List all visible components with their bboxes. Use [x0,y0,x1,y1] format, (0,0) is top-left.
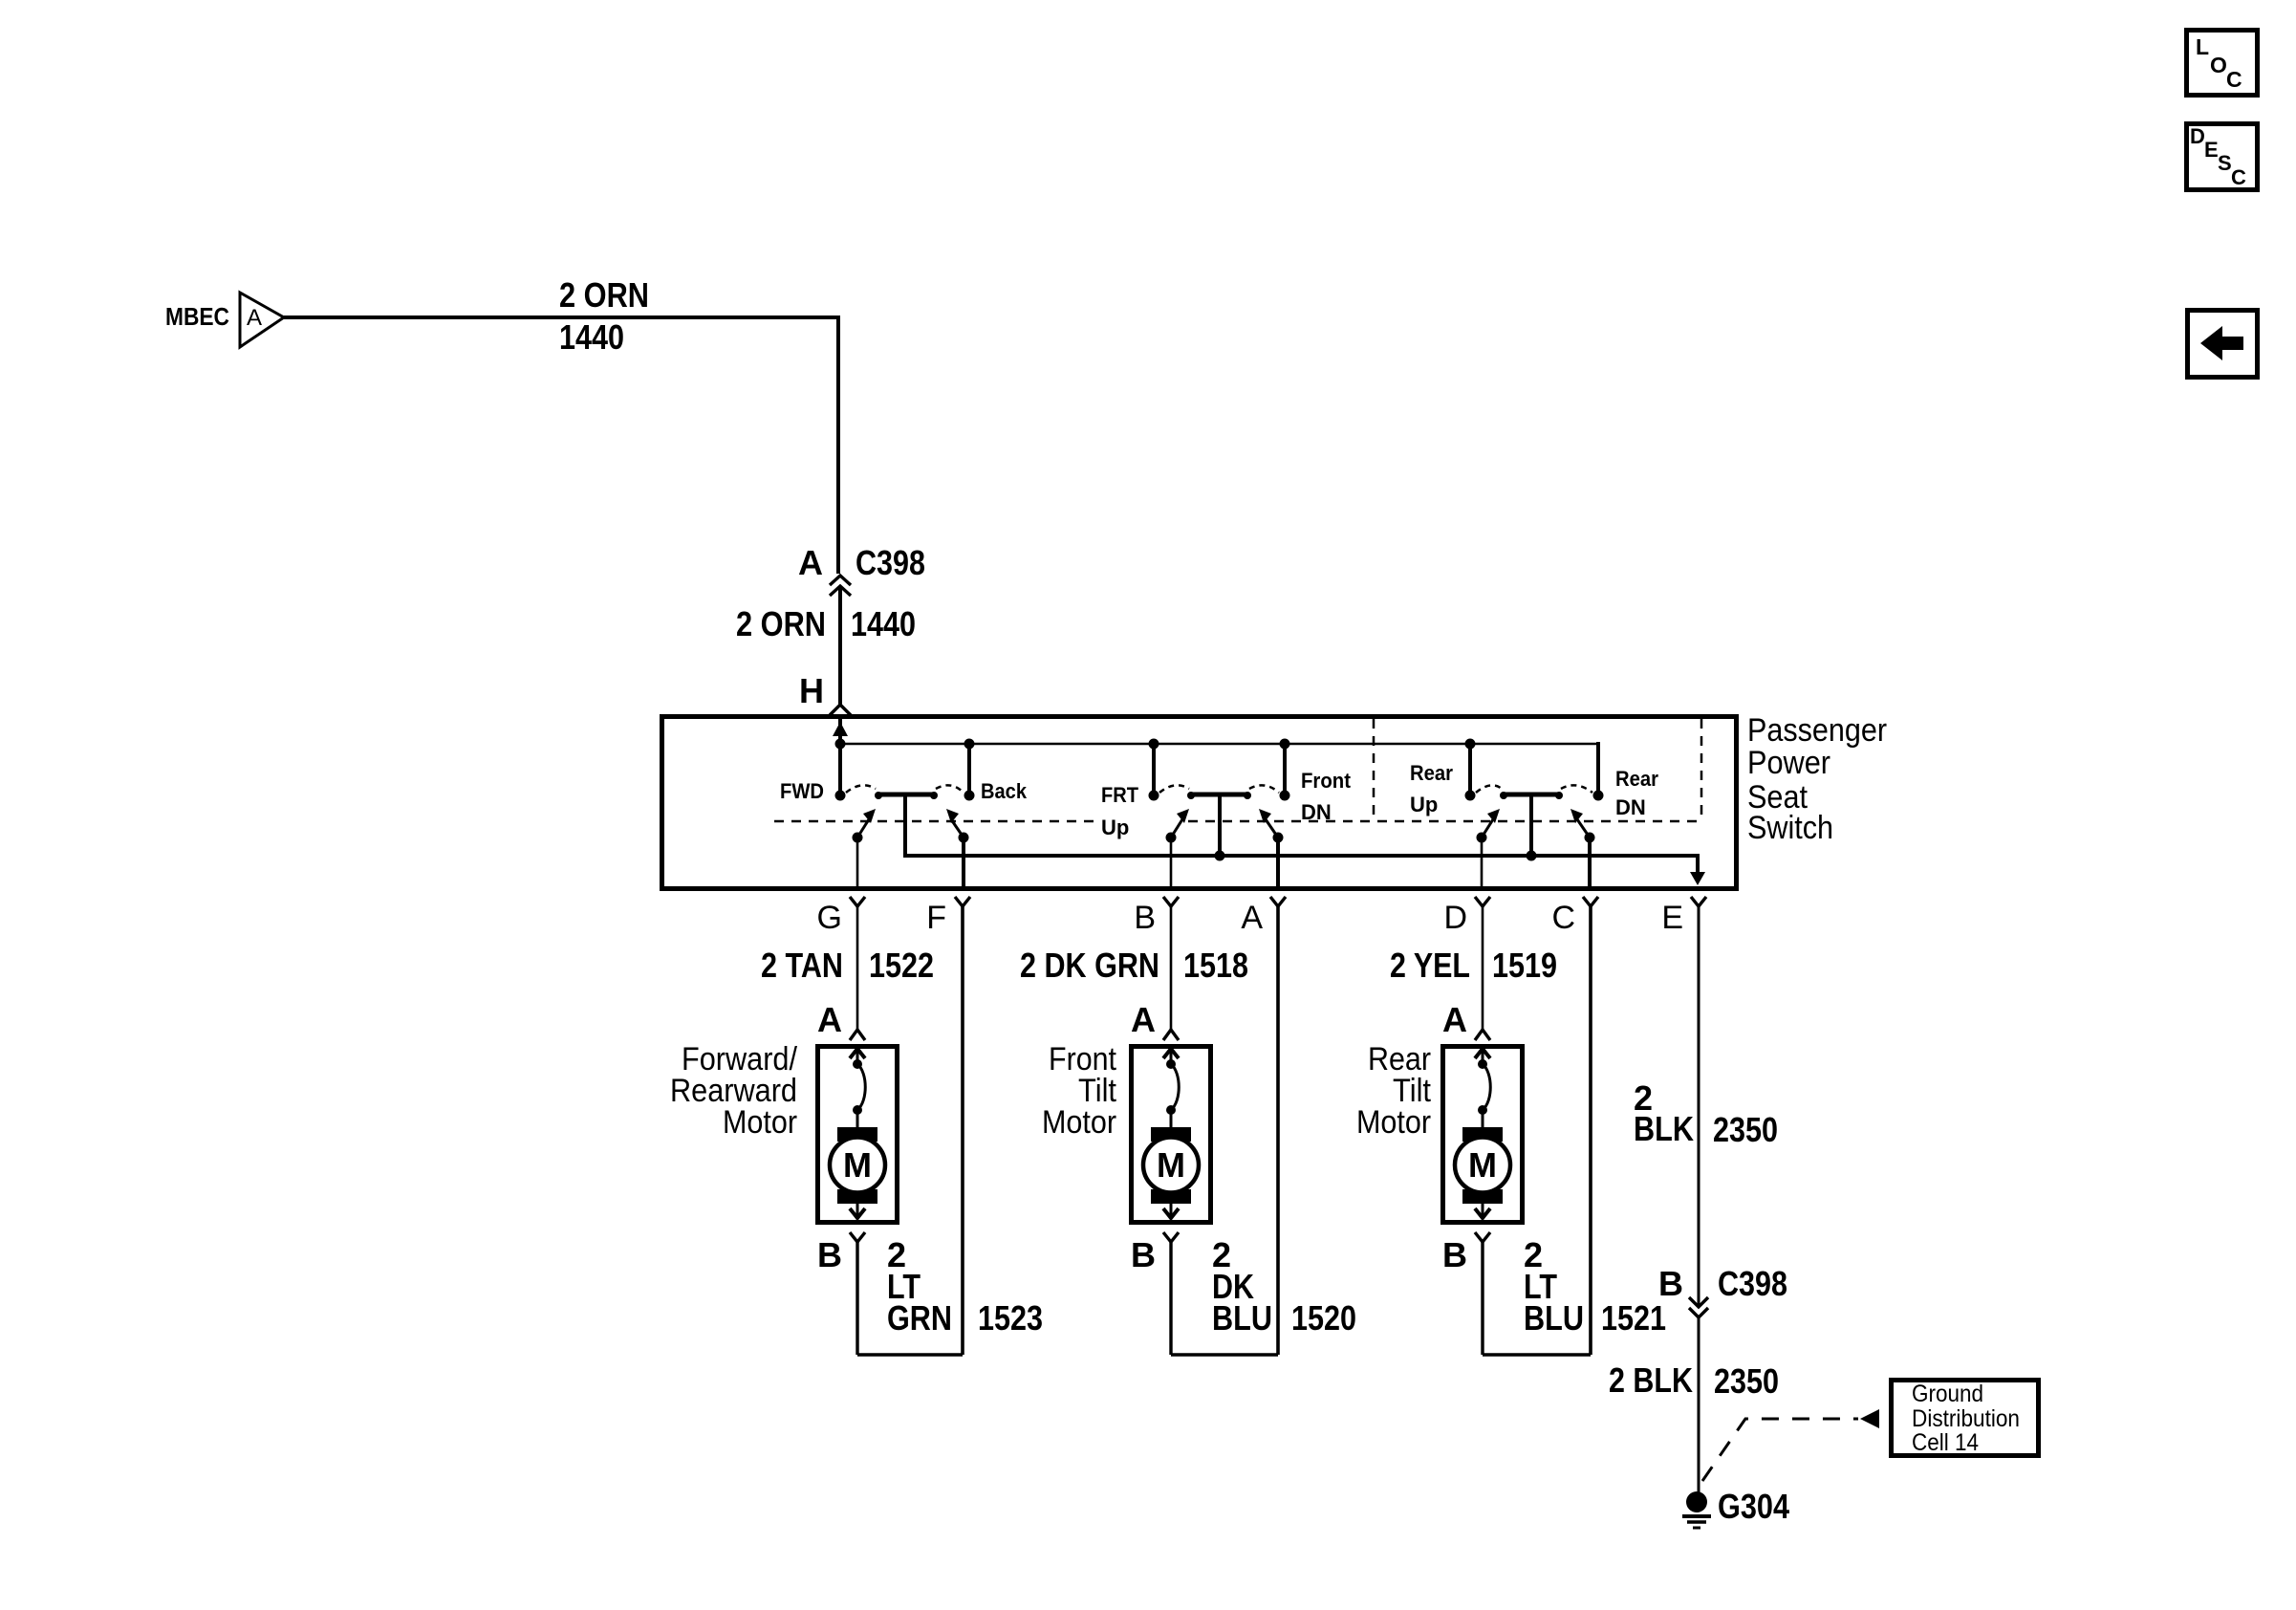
Passenger Power Seat Switch label [1747,712,1887,846]
svg-text:BLK: BLK [1634,1109,1694,1148]
MBEC source triangle pin A [240,293,284,347]
pin F chevron [955,897,970,906]
svg-text:Motor: Motor [723,1104,797,1141]
feed bus line inside switch [840,743,1598,746]
switch 2 left pole dot [1166,833,1177,843]
svg-text:Distribution: Distribution [1912,1405,2020,1432]
switch 1 FWD feed drop [838,744,842,792]
pin C chevron [1583,897,1598,906]
svg-text:1440: 1440 [851,604,916,643]
switch 3 pole D lead [1481,838,1484,889]
connector C398 chevrons [830,576,851,596]
svg-text:Rear: Rear [1615,767,1658,791]
junction dot tap 3 [1527,851,1537,861]
svg-text:Motor: Motor [1042,1104,1116,1141]
pin G chevron [850,897,865,906]
svg-text:DN: DN [1615,795,1646,819]
dashed boundary vertical right [1700,719,1703,820]
svg-text:H: H [799,671,824,710]
switch 3 right pole dot [1585,833,1595,843]
dashed switch-section boundary horizontal [774,820,1094,823]
svg-text:DN: DN [1301,800,1332,824]
label 2 DK BLU [1212,1235,1272,1338]
svg-text:C398: C398 [1718,1264,1787,1303]
svg-text:A: A [1131,1000,1156,1039]
svg-text:BLU: BLU [1524,1298,1584,1338]
Forward/Rearward Motor label [670,1041,797,1141]
connector C398 lower chevrons [1689,1297,1708,1317]
svg-text:D: D [2190,124,2205,148]
switch 2 pole A lead [1276,838,1280,889]
wire B to motor 2 [1170,906,1173,1029]
svg-text:FWD: FWD [780,779,824,803]
svg-text:M: M [1468,1145,1497,1185]
svg-text:C: C [1551,900,1575,936]
svg-text:A: A [1442,1000,1467,1039]
wire F down [961,906,964,1355]
svg-text:O: O [2210,53,2227,77]
svg-text:Back: Back [981,779,1028,803]
svg-text:D: D [1443,900,1467,936]
switch 1 right pole arrow [951,819,964,838]
svg-text:Ground: Ground [1912,1381,1983,1407]
svg-text:2 TAN: 2 TAN [761,946,843,985]
wire 2 ORN vertical drop [836,315,840,574]
switch 3 right pole arrow [1577,819,1590,838]
svg-text:Switch: Switch [1747,810,1833,846]
switch common return line [905,794,1698,875]
switch 2 Front DN feed drop [1283,744,1287,792]
wire G to motor 1 [856,906,859,1029]
svg-text:B: B [1658,1264,1683,1303]
svg-text:Cell 14: Cell 14 [1912,1429,1979,1456]
DESC legend box [2187,124,2258,190]
motor 2 wire B down [1169,1242,1172,1355]
pin H chevron [830,705,851,715]
svg-text:B: B [817,1235,842,1274]
junction dot tap 2 [1215,851,1225,861]
motor 1 wire B down [856,1242,858,1355]
svg-text:A: A [1241,900,1263,936]
svg-text:2 DK GRN: 2 DK GRN [1020,946,1159,985]
motor 3 loop wire to pin C [1483,1353,1591,1357]
junction dot feed to Front DN [1280,739,1290,750]
Ground Distribution Cell 14 box [1892,1381,2039,1457]
svg-text:A: A [817,1000,842,1039]
pin E chevron [1691,897,1706,906]
svg-text:A: A [247,305,262,331]
motor 3 pin B chevron [1475,1232,1490,1242]
svg-text:2 ORN: 2 ORN [559,275,649,315]
dashed boundary vertical mid [1373,719,1375,820]
svg-text:E: E [2204,138,2219,162]
switch 1 right pole dot [959,833,969,843]
switch 2 wiper tap [1218,794,1222,856]
motor 1 Forward/Rearward Motor [818,1047,898,1223]
motor 2 loop wire to pin A [1171,1353,1278,1357]
pin A chevron [1270,897,1286,906]
switch 2 FRT Up feed drop [1152,744,1156,792]
junction dot feed at H drop [835,739,846,750]
svg-text:M: M [1157,1145,1185,1185]
motor 1 pin A chevron [850,1030,865,1040]
wire feed entry with up arrow inside box [838,719,842,744]
switch 3 left pole dot [1477,833,1487,843]
motor 2 pin A chevron [1163,1030,1179,1040]
label 2 LT GRN [887,1235,952,1338]
back-arrow legend box [2188,311,2258,378]
motor 3 Rear Tilt Motor [1443,1047,1523,1223]
wire D to motor 3 [1482,906,1484,1029]
switch 2 dashed arc left [1159,785,1189,793]
svg-text:1518: 1518 [1183,946,1248,985]
Rear DN label [1615,767,1658,819]
switch 3 pole C lead [1588,838,1592,889]
svg-text:C: C [2231,165,2246,189]
common return arrow to pin E [1690,872,1705,885]
dashed reference line to Ground Distribution [1702,1419,1858,1481]
label 2 LT BLU [1524,1235,1584,1338]
switch 3 wiper tap [1529,794,1533,856]
svg-text:B: B [1134,900,1156,936]
svg-text:2 YEL: 2 YEL [1390,946,1470,985]
LOC legend box [2187,31,2258,96]
Front Tilt Motor label [1042,1041,1117,1141]
Rear Up label [1410,761,1453,816]
FRT Up label [1101,783,1139,839]
svg-text:1522: 1522 [869,946,934,985]
switch 2 pole B lead [1170,838,1173,889]
reference arrow [1860,1409,1879,1428]
svg-text:2 BLK: 2 BLK [1609,1360,1693,1400]
motor 2 Front Tilt Motor [1132,1047,1211,1223]
switch 1 FWD contact [835,791,846,801]
junction dot feed to Back [964,739,975,750]
svg-text:G304: G304 [1718,1487,1789,1526]
switch 3 left pole arrow [1482,819,1493,838]
svg-text:GRN: GRN [887,1298,952,1338]
wire 2 BLK to ground [1698,1317,1700,1493]
switch 2 FRT Up contact [1149,791,1159,801]
motor 1 loop wire to pin F [857,1353,963,1357]
switch 1 dashed arc left [846,785,876,793]
svg-text:BLU: BLU [1212,1298,1272,1338]
switch 3 Rear DN feed corner drop [1596,742,1600,792]
pin D chevron [1475,897,1490,906]
motor 3 pin A chevron [1475,1030,1490,1040]
svg-text:1523: 1523 [978,1298,1043,1338]
switch 2 right pole arrow [1266,819,1278,838]
switch 2 Front DN contact [1280,791,1290,801]
switch 3 Rear Up contact [1465,791,1476,801]
svg-text:A: A [798,543,823,582]
svg-text:2350: 2350 [1714,1361,1779,1401]
svg-text:Power: Power [1747,745,1830,781]
svg-text:Rear: Rear [1410,761,1453,785]
switch 3 Rear DN contact [1593,791,1604,801]
motor 1 pin B chevron [850,1232,865,1242]
switch 1 dashed arc right [936,785,964,793]
wire 2 ORN 1440 below C398 [838,586,842,705]
switch 2 right pole dot [1273,833,1284,843]
motor 3 wire B down [1481,1242,1484,1355]
switch 3 Rear Up feed drop [1468,744,1472,792]
svg-text:C: C [2226,67,2242,92]
svg-text:Front: Front [1301,769,1352,793]
svg-text:FRT: FRT [1101,783,1139,807]
svg-text:1440: 1440 [559,317,624,357]
svg-text:2350: 2350 [1713,1110,1778,1149]
switch 1 Back contact [964,791,975,801]
svg-text:G: G [817,900,842,936]
switch 3 dashed arc right [1561,785,1592,793]
svg-text:1520: 1520 [1291,1298,1356,1338]
svg-text:1521: 1521 [1601,1298,1666,1338]
svg-text:MBEC: MBEC [165,302,229,331]
switch 2 wiper bar [1191,793,1247,797]
svg-text:Passenger: Passenger [1747,712,1887,749]
svg-text:E: E [1661,900,1683,936]
motor 2 pin B chevron [1163,1232,1179,1242]
svg-text:L: L [2196,34,2209,59]
switch 2 left pole arrow [1171,819,1182,838]
junction dot feed to FRT Up [1149,739,1159,750]
switch 1 pole G lead [856,838,859,889]
svg-text:B: B [1442,1235,1467,1274]
ground G304 [1682,1491,1711,1528]
wire E down to C398 [1698,906,1700,1306]
label 2 BLK (upper) [1634,1078,1694,1148]
svg-text:M: M [843,1145,872,1185]
svg-text:Motor: Motor [1356,1104,1431,1141]
svg-text:2 ORN: 2 ORN [736,604,826,643]
Front DN label [1301,769,1352,824]
wire A down [1276,906,1280,1355]
svg-text:B: B [1131,1235,1156,1274]
wire 2 ORN from MBEC (horizontal) [284,315,840,319]
switch 1 wiper bar [878,793,934,797]
wire C down [1589,906,1592,1355]
svg-text:C398: C398 [856,543,925,582]
svg-text:1519: 1519 [1492,946,1557,985]
switch 1 left pole arrow [857,819,869,838]
svg-text:Up: Up [1410,793,1438,816]
pin B chevron [1163,897,1179,906]
svg-text:Up: Up [1101,816,1129,839]
switch 1 Back feed drop [967,744,971,792]
svg-text:F: F [926,900,946,936]
switch 3 dashed arc left [1476,785,1502,793]
switch 2 dashed arc right [1249,785,1279,793]
switch 1 pole F lead [962,838,965,889]
Rear Tilt Motor label [1356,1041,1432,1141]
switch 1 left pole dot [853,833,863,843]
svg-text:S: S [2218,151,2232,175]
junction dot feed to Rear Up [1465,739,1476,750]
switch 3 wiper bar [1504,793,1559,797]
Passenger Power Seat Switch box [662,717,1737,889]
